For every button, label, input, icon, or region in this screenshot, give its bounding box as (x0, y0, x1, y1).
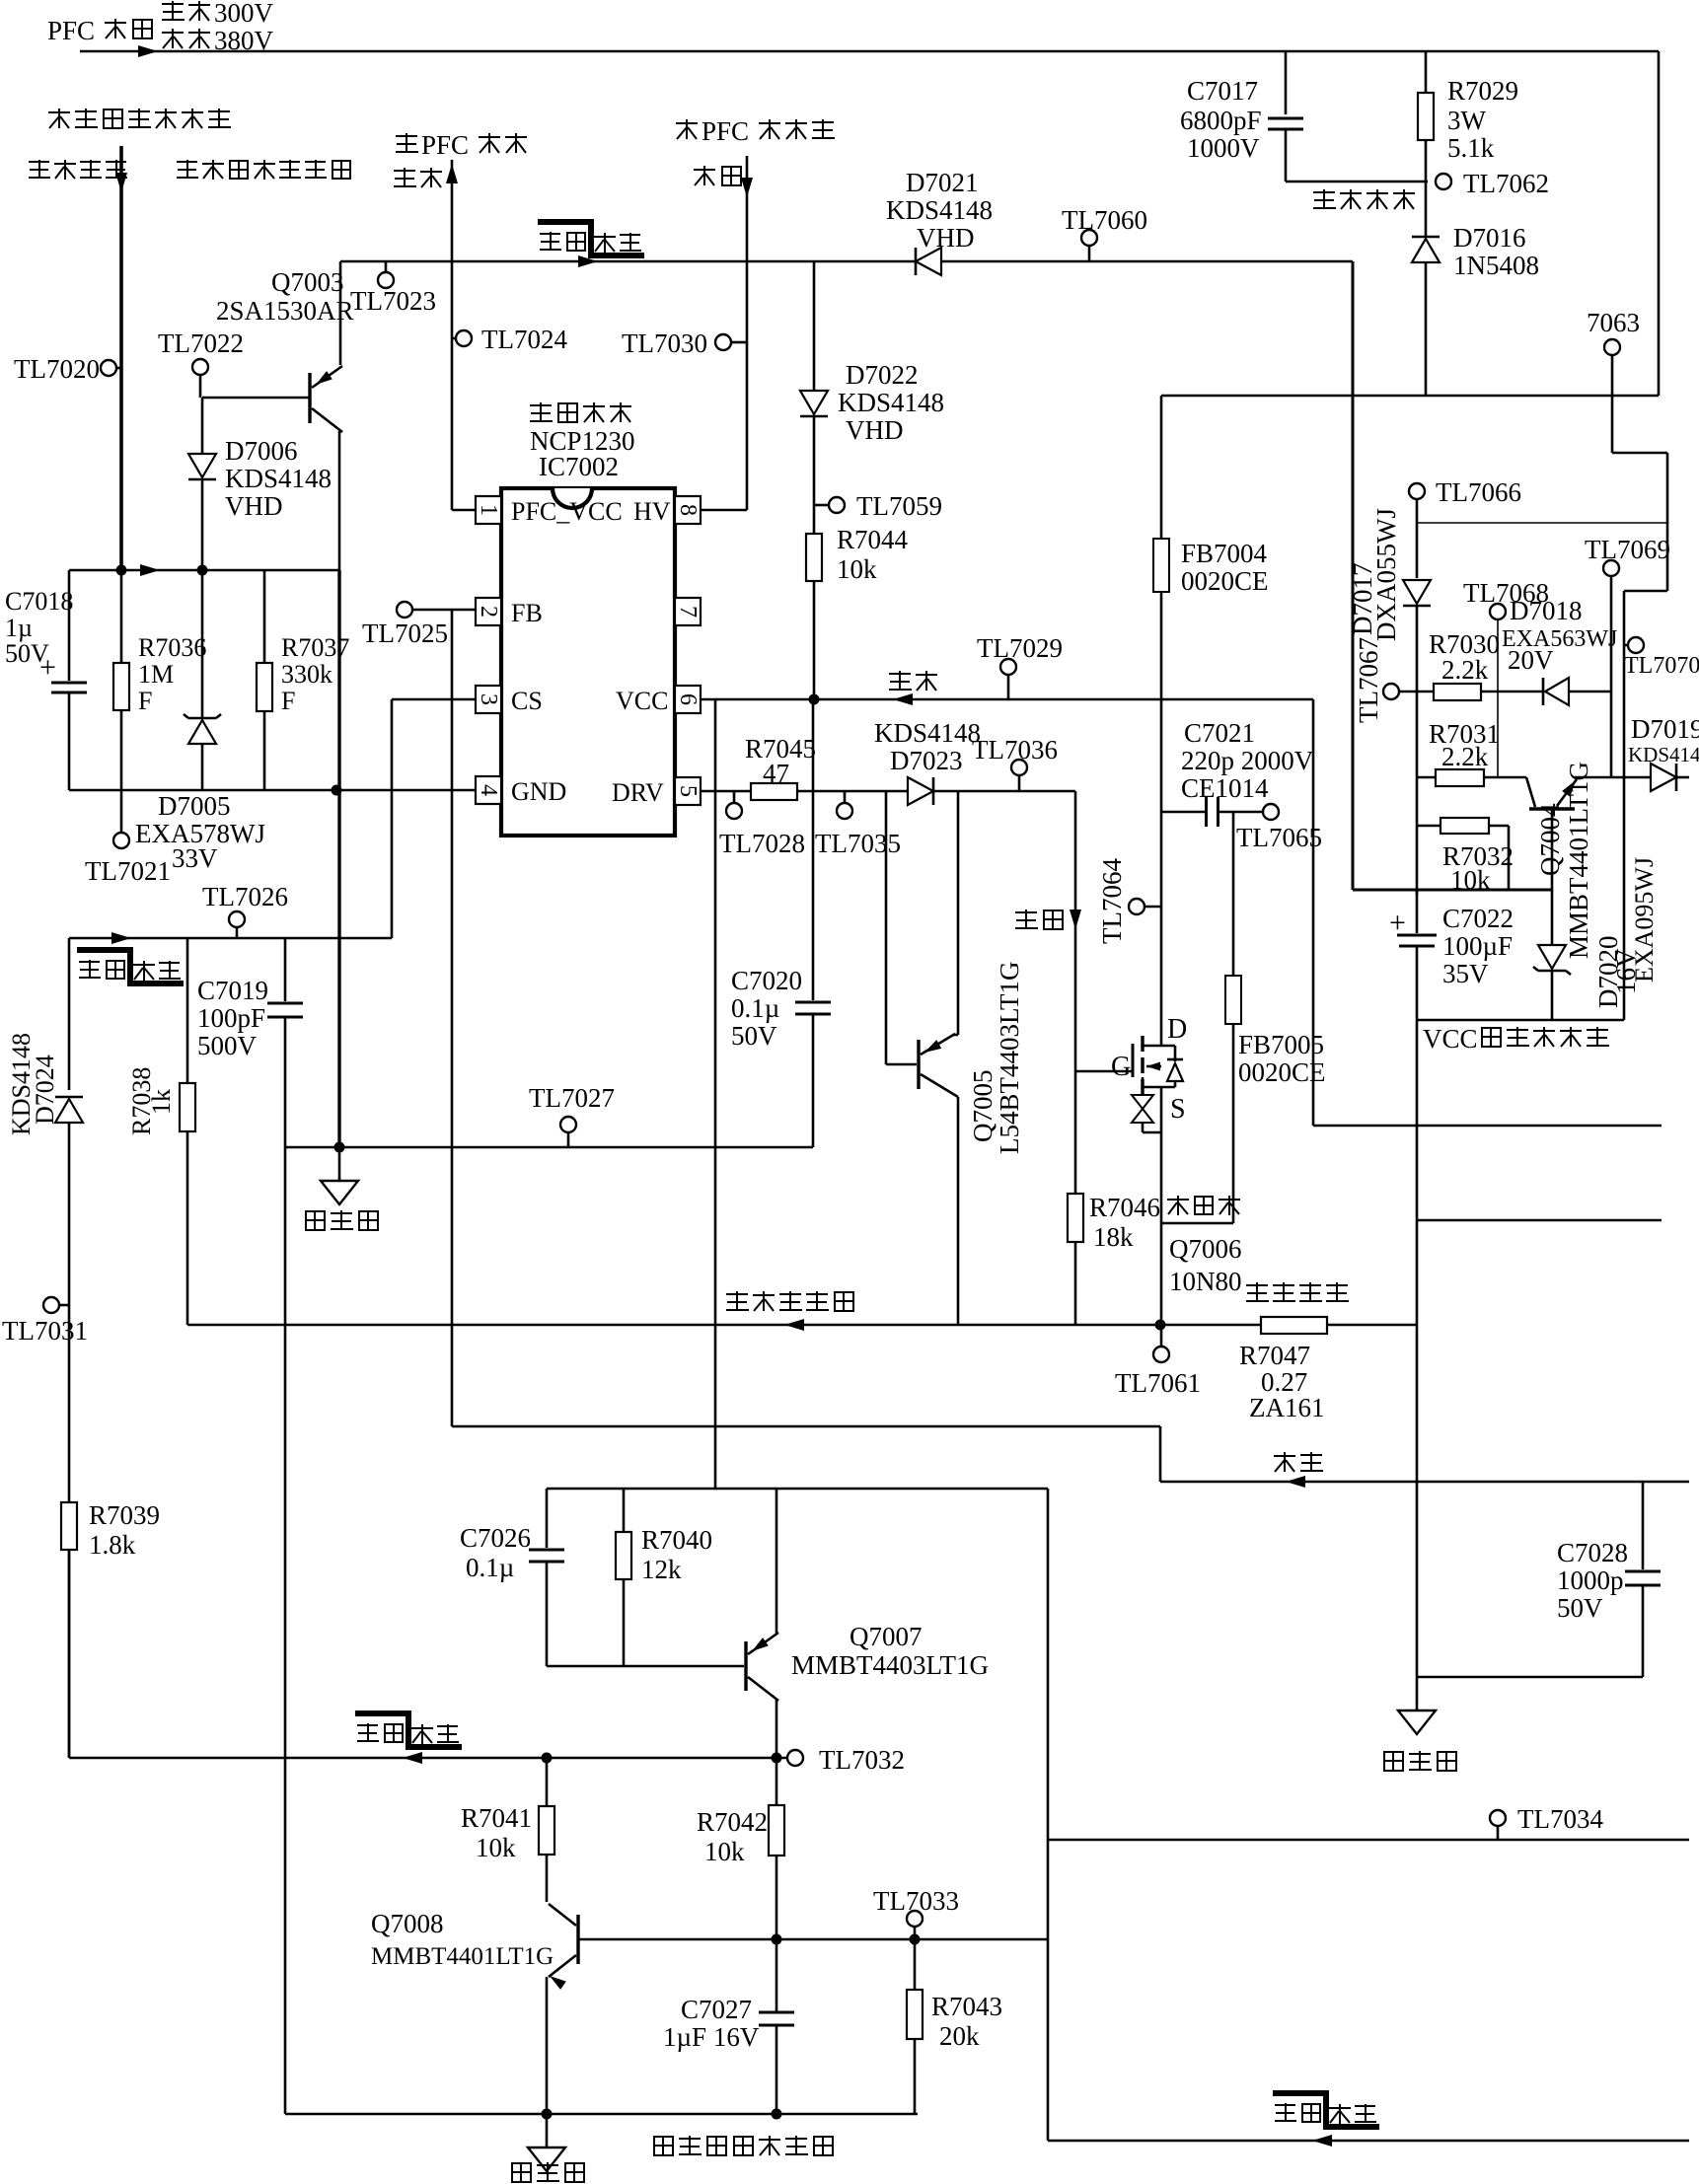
wire y1237 (1417, 1219, 1662, 1222)
svg-text:3W: 3W (1447, 106, 1487, 135)
resistor R7046 18k (1074, 1071, 1077, 1194)
gate protection zener (1142, 1077, 1145, 1095)
pin 7 box (675, 598, 701, 625)
svg-text:Q7005: Q7005 (968, 1070, 997, 1143)
svg-text:CS: CS (511, 687, 543, 715)
svg-text:DRV: DRV (612, 778, 664, 807)
svg-text:D7019: D7019 (1631, 714, 1699, 744)
transistor Q7007 MMBT4403LT1G (744, 1641, 747, 1691)
svg-text:C7028: C7028 (1557, 1538, 1628, 1567)
transistor Q7003 2SA1530AR (271, 267, 344, 297)
svg-text:R7042: R7042 (697, 1807, 768, 1837)
wire Q7007 base y1689 (547, 1665, 744, 1668)
svg-text:TL7029: TL7029 (977, 633, 1063, 663)
pin 3 box (476, 686, 501, 713)
svg-text:1µ: 1µ (5, 614, 33, 642)
svg-text:Q7008: Q7008 (371, 1909, 444, 1938)
svg-text:20k: 20k (939, 2021, 980, 2051)
svg-text:4: 4 (476, 784, 501, 796)
wire mains sampling bold x123 (119, 146, 123, 570)
wire x1062 (1047, 1489, 1050, 2141)
svg-text:300V: 300V (214, 0, 274, 28)
svg-text:R7047: R7047 (1239, 1341, 1310, 1370)
resistor R7038 1k (186, 938, 189, 1083)
svg-text:ZA161: ZA161 (1249, 1393, 1325, 1422)
svg-text:VHD: VHD (846, 415, 904, 445)
svg-text:6800pF: 6800pF (1180, 106, 1262, 135)
svg-text:C7026: C7026 (460, 1523, 531, 1553)
wire top rail y52 (80, 50, 1659, 53)
test point TL7030 (715, 334, 731, 350)
wire bold collector rail x344 down (337, 570, 340, 1147)
test point TL7029 (1007, 675, 1010, 699)
svg-text:R7037: R7037 (281, 633, 349, 662)
wire jog from y401 to right rail (1611, 396, 1614, 453)
svg-text:TL7021: TL7021 (85, 856, 171, 886)
wire drive x1090 down to gate (1074, 791, 1077, 1071)
svg-text:VHD: VHD (225, 491, 283, 521)
test point TL7021 (120, 790, 123, 833)
wire emitter rail y1509 (547, 1488, 1048, 1491)
test point TL7069 (1585, 535, 1670, 564)
svg-text:0.1µ: 0.1µ (731, 993, 779, 1023)
diode D7019 KDS4148 (1631, 714, 1699, 744)
svg-text:FB7005: FB7005 (1238, 1030, 1324, 1059)
pin 8 box (675, 496, 701, 524)
svg-text:3: 3 (476, 693, 501, 705)
transistor Q7004 MMBT4401LT1G (1526, 777, 1535, 807)
svg-text:TL7065: TL7065 (1236, 823, 1322, 852)
wire y1700 + ground (1417, 1676, 1643, 1679)
svg-text:1N5408: 1N5408 (1453, 251, 1539, 280)
wire CS pin3 (392, 698, 476, 701)
fuse FB7004 0020CE (1153, 539, 1169, 592)
test point TL7023 (385, 261, 388, 272)
svg-text:R7041: R7041 (461, 1803, 532, 1833)
wire pin1 (452, 509, 476, 512)
zener D7018 EXA563WJ 20V (1510, 596, 1583, 625)
svg-text:PFC_VCC: PFC_VCC (511, 497, 623, 526)
wire protection rail y265 (340, 260, 1353, 263)
svg-text:TL7035: TL7035 (815, 829, 901, 858)
svg-text:TL7061: TL7061 (1115, 1368, 1201, 1398)
svg-text:MMBT4401LT1G: MMBT4401LT1G (1564, 762, 1593, 959)
wire FB net x458 down (451, 610, 454, 1426)
fuse FB7005 0020CE (1232, 812, 1235, 976)
node PFC output labels (47, 16, 152, 45)
wire VCC feed x725 down (714, 699, 717, 1489)
svg-text:TL7033: TL7033 (873, 1886, 959, 1916)
svg-text:CE1014: CE1014 (1181, 773, 1269, 803)
snubber label (1313, 189, 1415, 209)
svg-text:VHD: VHD (917, 223, 975, 253)
svg-text:TL7030: TL7030 (622, 328, 707, 358)
svg-text:1000V: 1000V (1187, 133, 1260, 163)
svg-text:1: 1 (476, 504, 501, 516)
svg-text:1M: 1M (138, 660, 174, 689)
resistor R7045 47 (751, 783, 797, 800)
wire TL7026 protection y951 (69, 937, 392, 940)
wire FB y1446 (452, 1425, 1160, 1428)
test point TL7061 (1160, 1325, 1163, 1347)
test point TL7028 (733, 791, 736, 803)
svg-text:TL7067: TL7067 (1354, 637, 1383, 723)
wire gate y1086 (1075, 1070, 1133, 1073)
resistor R7044 10k (806, 534, 822, 581)
svg-text:TL7064: TL7064 (1097, 858, 1127, 944)
resistor R7042 10k (769, 1805, 784, 1856)
svg-text:C7022: C7022 (1442, 904, 1514, 933)
wire overcurrent y1343 (187, 1324, 1417, 1327)
capacitor C7017 (1285, 51, 1288, 114)
svg-text:PFC: PFC (421, 130, 469, 160)
svg-text:TL7059: TL7059 (856, 491, 942, 521)
test point TL7033 (914, 1927, 917, 1939)
svg-text:Q7004: Q7004 (1535, 803, 1565, 876)
svg-text:TL7020: TL7020 (14, 354, 100, 384)
test point TL7036 (1018, 775, 1021, 791)
svg-text:TL7069: TL7069 (1585, 535, 1670, 564)
svg-text:FB: FB (511, 599, 543, 627)
svg-text:1000p: 1000p (1557, 1565, 1624, 1595)
wire hot-gnd y1163 (285, 1146, 813, 1149)
wire right edge drop x1681 (1658, 51, 1661, 396)
test point TL7064 (1097, 858, 1127, 944)
test point TL7065 (1263, 804, 1279, 820)
svg-text:KDS4148: KDS4148 (886, 195, 993, 225)
wire bottom rail y2143 (285, 2113, 918, 2116)
zener D7020 16V EXA095WJ (1538, 945, 1566, 969)
diode D7022 KDS4148 startup (813, 261, 816, 391)
svg-text:L54BT4403LT1G: L54BT4403LT1G (995, 962, 1024, 1155)
capacitor C7018 electrolytic (5, 587, 73, 616)
svg-text:+: + (39, 651, 56, 684)
wire y1865 (1048, 1839, 1689, 1842)
pin 1 box (476, 496, 501, 524)
resistor R7043 20k (914, 1939, 917, 1990)
test point TL7022 (192, 359, 208, 375)
zener D7017 DXA055WJ (1416, 523, 1419, 578)
test point TL7034 (1497, 1826, 1500, 1840)
svg-text:TL7023: TL7023 (350, 286, 436, 316)
wire protection y1782 (68, 1757, 71, 1760)
svg-text:TL7026: TL7026 (202, 882, 288, 911)
wire GND pin4 rail y801 (69, 789, 476, 792)
svg-text:IC7002: IC7002 (539, 452, 619, 481)
wire startup x757 (746, 156, 749, 510)
svg-text:100pF: 100pF (197, 1003, 265, 1033)
svg-text:PFC: PFC (47, 16, 95, 45)
wire y1141 (1313, 1125, 1662, 1128)
test point TL7026 (236, 927, 239, 938)
resistor R7041 10k (546, 1758, 549, 1806)
wire VCC block bottom rail y1034 (1418, 1019, 1624, 1022)
svg-text:TL7025: TL7025 (362, 619, 448, 648)
wire regulation y1502 (1160, 1481, 1689, 1484)
resistor R7032 10k (1417, 825, 1440, 828)
ground bottom (546, 2114, 549, 2148)
svg-text:TL7028: TL7028 (719, 829, 805, 858)
zener D7005 EXA578WJ 33V (201, 570, 204, 718)
svg-text:2.2k: 2.2k (1441, 742, 1489, 771)
capacitor C7021 220p 2000V CE1014 (1184, 718, 1255, 748)
resistor R7030 2.2k (1434, 684, 1481, 700)
pin 5 box (675, 777, 701, 805)
protection/normal symbol top (538, 222, 644, 255)
wire y530 (1417, 522, 1667, 524)
wire drain-source x1177 (1160, 396, 1163, 539)
capacitor C7020 0.1u 50V (812, 699, 815, 1000)
protection/normal bottom-left (355, 1713, 462, 1747)
svg-text:8: 8 (675, 504, 701, 516)
svg-text:0.1µ: 0.1µ (466, 1553, 514, 1582)
svg-text:500V: 500V (197, 1031, 258, 1060)
op-amp IC7002 NCP1230 driver (530, 402, 631, 422)
svg-text:D7006: D7006 (225, 436, 298, 466)
svg-text:1.8k: 1.8k (89, 1530, 136, 1560)
wire y2170 (1048, 2140, 1689, 2143)
svg-text:D7018: D7018 (1510, 596, 1583, 625)
svg-text:G: G (1111, 1052, 1131, 1082)
svg-text:R7036: R7036 (138, 633, 206, 662)
wire sampled rail y578 (69, 569, 339, 572)
pin 6 box (675, 686, 701, 713)
svg-text:R7044: R7044 (837, 525, 909, 554)
wire y401 rail (1161, 395, 1659, 398)
svg-text:R7039: R7039 (89, 1500, 160, 1530)
test point TL7035 (844, 791, 847, 803)
diode D7024 KDS4148 (68, 938, 71, 1090)
svg-text:33V: 33V (172, 843, 218, 873)
svg-text:C7018: C7018 (5, 587, 73, 616)
resistor R7036 1M (120, 570, 123, 663)
svg-text:18k: 18k (1093, 1222, 1134, 1252)
svg-text:R7046: R7046 (1089, 1193, 1160, 1222)
svg-text:TL7022: TL7022 (158, 328, 244, 358)
svg-text:TL7032: TL7032 (819, 1745, 905, 1775)
svg-text:C7021: C7021 (1184, 718, 1255, 748)
svg-text:MMBT4403LT1G: MMBT4403LT1G (791, 1650, 989, 1680)
diode D7021 KDS4148 (916, 248, 941, 275)
svg-text:TL7070: TL7070 (1624, 653, 1699, 679)
wire Q7008 base y1966 (578, 1938, 1048, 1941)
svg-text:10k: 10k (476, 1833, 516, 1862)
wire startup supply x458 (451, 160, 454, 510)
svg-text:TL7027: TL7027 (529, 1083, 615, 1113)
svg-text:KDS4148: KDS4148 (225, 464, 332, 493)
wire DRV y802 (702, 790, 751, 793)
svg-text:F: F (138, 687, 152, 715)
svg-text:MMBT4401LT1G: MMBT4401LT1G (371, 1943, 554, 1970)
svg-text:KDS4148: KDS4148 (1628, 743, 1699, 766)
test point TL7031 (43, 1297, 59, 1313)
svg-text:TL7062: TL7062 (1463, 169, 1549, 198)
pin 2 box (476, 598, 501, 625)
svg-text:47: 47 (763, 759, 789, 788)
resistor R7031 2.2k (1417, 776, 1436, 779)
svg-text:C7020: C7020 (731, 966, 802, 995)
svg-text:R7043: R7043 (931, 1992, 1002, 2021)
protection/normal symbol mid-left (77, 950, 184, 983)
svg-text:D7023: D7023 (890, 746, 963, 775)
svg-text:D7021: D7021 (906, 168, 979, 197)
wire pin8 to startup (701, 509, 747, 512)
pin 4 box (476, 776, 501, 804)
diode D7006 KDS4148 VHD (201, 398, 204, 454)
wire VCC right drop x1331 (1312, 699, 1315, 1126)
svg-text:5.1k: 5.1k (1447, 133, 1495, 163)
transistor Q7008 MMBT4401LT1G (576, 1915, 579, 1964)
svg-text:Q7006: Q7006 (1169, 1234, 1242, 1264)
svg-text:PFC: PFC (702, 116, 749, 146)
svg-text:20V: 20V (1508, 645, 1554, 675)
svg-text:HV: HV (633, 497, 671, 526)
svg-text:KDS4148: KDS4148 (874, 718, 981, 748)
wire right rail x1646 down (1623, 591, 1626, 1020)
svg-text:2: 2 (476, 606, 501, 618)
body diode (1174, 1046, 1177, 1061)
svg-text:D7024: D7024 (31, 1055, 59, 1125)
test point TL7059 (814, 504, 829, 507)
svg-text:R7029: R7029 (1447, 76, 1518, 106)
diode D7023 KDS4148 (908, 777, 933, 805)
svg-text:TL7024: TL7024 (481, 325, 567, 354)
svg-text:7: 7 (675, 606, 701, 618)
svg-text:VCC: VCC (1423, 1024, 1478, 1054)
svg-text:R7040: R7040 (641, 1525, 712, 1555)
svg-text:D7016: D7016 (1453, 223, 1526, 253)
svg-text:EXA095WJ: EXA095WJ (1630, 857, 1659, 983)
svg-text:6: 6 (675, 693, 701, 705)
svg-text:220p 2000V: 220p 2000V (1181, 746, 1314, 775)
test point TL7032 (787, 1750, 803, 1766)
svg-text:C7019: C7019 (197, 976, 268, 1005)
test point 7063 (1587, 308, 1640, 337)
ground hot (338, 1147, 341, 1181)
wire VCC rail y709 (702, 698, 1313, 701)
test point TL7070 (1628, 637, 1644, 653)
svg-text:D7022: D7022 (846, 360, 919, 390)
resistor R7037 330k (263, 570, 266, 663)
svg-text:2SA1530AR: 2SA1530AR (216, 296, 354, 326)
svg-text:S: S (1170, 1094, 1186, 1125)
svg-text:C7027: C7027 (681, 1995, 752, 2024)
protection/normal bottom-right (1273, 2093, 1379, 2127)
svg-text:C7017: C7017 (1187, 76, 1258, 106)
test point TL7062 (1436, 174, 1451, 189)
svg-text:50V: 50V (1557, 1593, 1603, 1623)
svg-text:0020CE: 0020CE (1238, 1057, 1326, 1087)
svg-text:1k: 1k (147, 1089, 176, 1115)
svg-text:12k: 12k (641, 1555, 682, 1584)
svg-text:330k: 330k (281, 660, 332, 689)
wire C7017 bottom to TL7062 (1286, 181, 1428, 183)
svg-text:Q7007: Q7007 (849, 1622, 923, 1651)
test point TL7020 (101, 360, 116, 376)
test point TL7066 (1409, 483, 1425, 499)
svg-text:35V: 35V (1442, 959, 1489, 988)
test point TL7068 (1463, 578, 1549, 608)
test point TL7024 (452, 337, 456, 340)
svg-text:10k: 10k (704, 1837, 745, 1866)
transistor Q7006 10N80 MOSFET (1111, 1052, 1131, 1082)
svg-text:Q7003: Q7003 (271, 267, 344, 297)
resistor R7047 0.27 ZA161 (1246, 1282, 1349, 1301)
svg-text:TL7036: TL7036 (972, 735, 1058, 764)
capacitor C7028 1000p 50V (1642, 1482, 1645, 1569)
capacitor C7019 100pF 500V (284, 938, 287, 1001)
svg-text:GND: GND (511, 777, 566, 806)
svg-text:2.2k: 2.2k (1441, 655, 1489, 685)
svg-text:10k: 10k (837, 554, 877, 584)
node from anti-interference circuit (48, 109, 231, 128)
resistor R7039 1.8k (61, 1502, 77, 1550)
transistor Q7005 L54BT4403LT1G (885, 791, 888, 1064)
test point TL7060 (1088, 246, 1091, 261)
svg-text:100µF: 100µF (1442, 931, 1513, 961)
test point TL7027 (567, 1132, 570, 1147)
svg-text:FB7004: FB7004 (1181, 539, 1268, 568)
svg-text:KDS4148: KDS4148 (838, 388, 944, 417)
svg-text:5: 5 (675, 785, 701, 797)
svg-text:VCC: VCC (616, 687, 668, 715)
diode D7016 1N5408 (1425, 182, 1428, 237)
test point TL7025 (397, 602, 412, 618)
svg-text:TL7066: TL7066 (1436, 477, 1521, 507)
svg-text:1µF 16V: 1µF 16V (663, 2022, 760, 2052)
svg-text:10N80: 10N80 (1169, 1267, 1242, 1296)
svg-text:D7005: D7005 (158, 791, 231, 821)
svg-text:DXA055WJ: DXA055WJ (1371, 508, 1401, 641)
node from PFC circuit / startup (676, 116, 835, 146)
wire VCC block bold rail (1352, 261, 1355, 890)
node to PFC circuit supply (396, 130, 527, 160)
test point TL7067 (1354, 637, 1383, 723)
svg-text:TL7060: TL7060 (1062, 205, 1147, 235)
svg-text:TL7031: TL7031 (2, 1316, 88, 1346)
capacitor C7027 1uF 16V (759, 2011, 794, 2014)
svg-text:50V: 50V (731, 1021, 777, 1051)
svg-text:7063: 7063 (1587, 308, 1640, 337)
resistor R7040 12k (623, 1489, 626, 1532)
svg-text:TL7034: TL7034 (1517, 1804, 1603, 1834)
capacitor C7026 0.1u (546, 1489, 549, 1548)
svg-text:D: D (1167, 1014, 1187, 1045)
svg-text:0020CE: 0020CE (1181, 566, 1269, 596)
svg-text:F: F (281, 687, 295, 715)
resistor R7029 (1425, 51, 1428, 93)
